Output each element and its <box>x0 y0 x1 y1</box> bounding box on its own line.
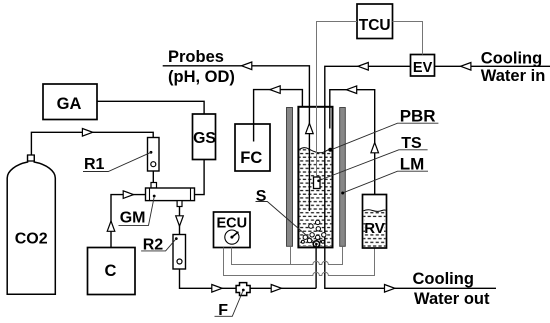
svg-text:GS: GS <box>193 130 216 147</box>
wire C to GM <box>111 195 146 248</box>
PBR column vessel <box>298 107 332 248</box>
svg-text:Cooling: Cooling <box>413 270 474 288</box>
wire GS to GM <box>195 160 205 195</box>
svg-text:GM: GM <box>120 209 146 226</box>
svg-text:R1: R1 <box>84 156 105 173</box>
label GM <box>119 197 155 227</box>
label R1 <box>83 152 151 173</box>
label PBR <box>328 107 438 152</box>
cooling water in line <box>325 66 550 288</box>
svg-text:S: S <box>256 188 267 205</box>
wire GM to R2 <box>179 207 181 235</box>
label TS <box>317 135 427 182</box>
svg-text:(pH, OD): (pH, OD) <box>168 68 235 86</box>
svg-text:Water out: Water out <box>414 290 490 308</box>
svg-text:RV: RV <box>364 220 385 237</box>
arrow on CO2 feed line <box>82 129 92 137</box>
arrow right cooling out <box>385 285 395 293</box>
arrow left on probes line <box>242 62 252 70</box>
svg-text:FC: FC <box>240 149 262 167</box>
label F <box>215 291 244 320</box>
probes line <box>163 66 310 211</box>
svg-text:EV: EV <box>413 60 433 76</box>
svg-text:Water in: Water in <box>481 67 545 85</box>
box TCU <box>357 4 393 39</box>
wire R1 to GM port <box>152 171 154 183</box>
RV feed line <box>330 90 375 195</box>
arrow left cooling in <box>461 63 471 71</box>
svg-text:CO2: CO2 <box>15 231 48 248</box>
bubbles in column <box>301 220 326 244</box>
control line ECU to RV <box>224 248 375 276</box>
arrow down on GM-R2 wire <box>176 216 184 226</box>
control line TCU to TS sensor <box>317 22 358 177</box>
svg-text:TCU: TCU <box>359 17 391 34</box>
CO2 cylinder <box>7 155 55 294</box>
box GS <box>193 114 216 160</box>
svg-text:Probes: Probes <box>168 48 224 66</box>
arrow right into GM <box>123 191 133 199</box>
lamp right <box>340 108 346 247</box>
sparger gas tube <box>315 244 317 288</box>
medium in column <box>299 148 331 246</box>
box FC <box>235 124 270 171</box>
wire CO2 valve to R1 <box>31 132 153 155</box>
label S <box>256 188 317 244</box>
wire R2 to sparger line <box>180 269 317 288</box>
arrow left toward FC <box>270 86 280 94</box>
box GA <box>43 84 97 120</box>
box C <box>88 248 136 295</box>
control line ECU to lamps <box>232 246 343 264</box>
box EV <box>411 55 435 77</box>
rotameter R1 <box>148 138 160 172</box>
sparger S <box>313 241 319 247</box>
label R2 <box>141 236 176 253</box>
svg-text:Cooling: Cooling <box>481 49 542 67</box>
wire GA to GS <box>97 101 204 114</box>
arrow up on C line <box>107 221 115 231</box>
box ECU <box>214 212 251 248</box>
arrow left into column top <box>346 86 356 94</box>
label LM <box>341 155 428 195</box>
arrow up on RV riser <box>371 143 379 153</box>
arrow up in headspace on probe tube <box>306 123 314 133</box>
filter F <box>236 283 250 296</box>
rotameter R2 <box>173 235 186 270</box>
arrow right before F <box>212 285 222 293</box>
svg-text:ECU: ECU <box>216 216 247 232</box>
svg-text:C: C <box>105 262 117 280</box>
gas mixer GM <box>146 183 195 207</box>
reservoir vessel RV <box>363 195 387 249</box>
control line TCU to EV <box>393 22 423 55</box>
temperature sensor TS <box>314 177 321 189</box>
arrow right after F <box>271 285 281 293</box>
svg-text:GA: GA <box>57 95 82 113</box>
wire FC to column headspace <box>254 90 303 142</box>
lamp left <box>287 108 293 247</box>
arrow left into column <box>358 63 368 71</box>
